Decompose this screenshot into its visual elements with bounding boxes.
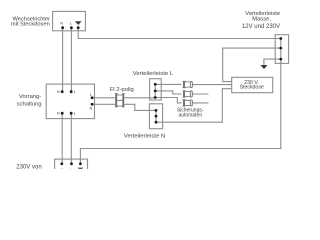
breaker F3 symbol (Sicherungsautomat) — [183, 100, 193, 107]
breaker F2 symbol (Sicherungsautomat) — [183, 91, 193, 98]
wire N from RCD to distribution strip N — [124, 104, 156, 110]
svg-text:230V von: 230V von — [16, 164, 41, 169]
wire breaker F3 spare output — [192, 102, 208, 104]
junction dot ground strip pin 2 — [279, 47, 282, 50]
junction dot priority switch right N — [91, 103, 94, 106]
svg-text:N: N — [60, 167, 63, 169]
node bus of strip N — [155, 110, 157, 122]
inverter U1 box (Wechselrichter mit Steckdosen) — [53, 11, 86, 30]
wire L from priority switch down to mains socket — [70, 113, 72, 164]
label socket "230 V. / Steckdose" — [240, 80, 264, 91]
svg-text:12V und 230V: 12V und 230V — [242, 24, 280, 30]
wire strip N to 230V socket — [156, 89, 232, 123]
svg-text:N: N — [89, 105, 92, 110]
svg-text:FI 2-polig: FI 2-polig — [110, 87, 134, 93]
junction dot inverter L — [70, 26, 73, 29]
ground distribution strip box (Verteilerleiste Masse) — [275, 35, 288, 64]
wire ground strip to 230V socket PE — [223, 48, 281, 82]
junction dot priority switch top N — [61, 90, 64, 93]
mains inlet box (230V von ...) — [55, 159, 88, 171]
label priority switch "Vorrang- / schaltung" — [17, 94, 42, 107]
wire L from inverter down to priority switch — [70, 28, 72, 92]
wire N from priority switch down to mains socket — [61, 113, 63, 164]
wire strip L to breaker F1 — [155, 83, 181, 85]
wire L from priority switch to RCD — [92, 97, 115, 99]
wire strip L to breaker F3 — [155, 98, 181, 103]
junction dot priority switch top L — [70, 90, 73, 93]
svg-text:Masse,: Masse, — [252, 17, 271, 23]
svg-text:Vorrang-: Vorrang- — [19, 94, 41, 100]
priority switch U2 box (Vorrangschaltung) — [46, 84, 94, 119]
junction dot priority switch bottom N — [61, 112, 64, 115]
wire breaker F2 spare output — [192, 93, 208, 95]
junction dot priority switch right L — [91, 96, 94, 99]
distribution strip N box (Verteilerleiste N) — [149, 104, 162, 129]
ground symbol at ground strip (chassis arrow) — [260, 65, 267, 69]
junction dot strip L pin 3 — [154, 96, 157, 99]
svg-text:N: N — [57, 89, 60, 94]
svg-text:automaten: automaten — [178, 113, 202, 119]
RCD FI1 symbol (FI 2-polig) — [115, 94, 125, 108]
svg-text:Verteilerleiste L: Verteilerleiste L — [133, 71, 174, 77]
junction dot inverter N — [61, 26, 64, 29]
junction dot strip N pin 3 — [155, 121, 158, 124]
wire PE bus: mains socket PE up, across bottom, up to ground strip — [80, 63, 280, 163]
wire PE from inverter to ground distribution strip — [78, 28, 281, 39]
ground symbol at inverter PE — [75, 21, 82, 25]
label ground strip "Verteilerleiste / Masse, / 12V und 230V" — [242, 11, 280, 30]
junction dot mains inlet N — [60, 162, 63, 165]
distribution strip L box (Verteilerleiste L) — [150, 79, 162, 100]
wire N from priority switch to RCD — [92, 103, 115, 105]
junction dot inverter PE — [77, 26, 80, 29]
ground symbol at mains inlet PE (cut off at bottom) — [78, 168, 84, 171]
junction dot ground strip pin 3 — [279, 58, 282, 61]
junction dot strip N pin 2 — [155, 115, 158, 118]
svg-text:Verteilerleiste N: Verteilerleiste N — [124, 133, 165, 139]
junction dot strip L pin 1 — [154, 83, 157, 86]
wire ground strip to chassis ground — [264, 59, 281, 65]
230V socket box (230 V. Steckdose) — [232, 77, 273, 92]
node bus of strip L — [154, 84, 156, 97]
svg-text:N: N — [60, 20, 63, 25]
junction dot strip L pin 2 — [154, 90, 157, 93]
junction dot mains inlet L — [70, 162, 73, 165]
wire breaker F1 to 230V socket — [192, 84, 232, 86]
label breakers "Sicherungs- / automaten" — [177, 107, 204, 118]
svg-text:schaltung: schaltung — [17, 101, 42, 107]
junction dot mains inlet PE — [79, 162, 82, 165]
wire strip L to breaker F2 — [155, 91, 181, 94]
wire L from RCD to distribution strip L — [124, 97, 155, 99]
junction dot priority switch bottom L — [70, 112, 73, 115]
node bus of ground strip — [280, 39, 282, 64]
label inverter "Wechselrichter / mit Steckdosen" — [11, 17, 50, 28]
svg-text:mit Steckdosen: mit Steckdosen — [11, 22, 50, 28]
svg-text:N: N — [57, 111, 60, 116]
junction dot strip N pin 1 — [155, 109, 158, 112]
wire N from inverter down to priority switch — [62, 28, 64, 92]
junction dot ground strip pin 1 — [279, 37, 282, 40]
svg-text:Steckdose: Steckdose — [240, 85, 264, 91]
breaker F1 symbol (Sicherungsautomat) — [183, 81, 193, 88]
